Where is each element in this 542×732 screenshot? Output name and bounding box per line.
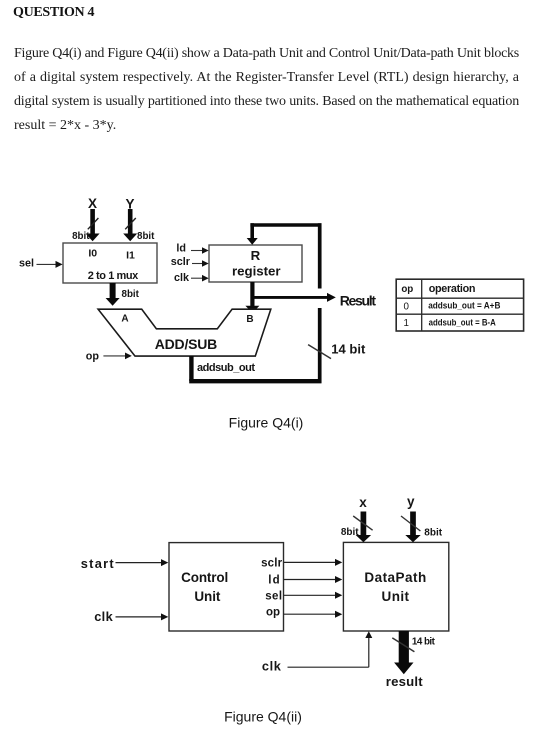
wire Result [252, 293, 335, 302]
label R [251, 248, 261, 263]
wire sclr to datapath [284, 559, 343, 566]
svg-text:8bit: 8bit [122, 289, 140, 300]
alu ADD/SUB [98, 309, 271, 356]
label 8bit on x bus [341, 527, 359, 538]
pin sel out [265, 591, 282, 603]
paragraph line 2 [14, 70, 519, 86]
label Unit (control) [194, 589, 221, 604]
node x label [359, 495, 367, 510]
svg-text:A: A [121, 313, 128, 324]
bus-width slash result 14 bit [392, 638, 414, 652]
wire sel to datapath [284, 592, 343, 599]
label sel [19, 257, 34, 269]
svg-text:register: register [232, 264, 281, 279]
svg-text:clk: clk [94, 609, 113, 624]
pin I0 [88, 248, 97, 260]
label clk (control input) [94, 609, 113, 624]
wire addsub_out down [189, 356, 193, 381]
svg-text:sclr: sclr [261, 557, 283, 569]
wire result output bus [394, 631, 413, 674]
node y label [407, 494, 415, 509]
label Control [181, 570, 228, 585]
paragraph line 4 [14, 118, 116, 134]
label 8bit on X bus [72, 231, 90, 242]
label 8bit on y bus [424, 528, 442, 539]
label 8bit on mux output [122, 289, 140, 300]
wire ld to datapath [284, 576, 343, 583]
svg-text:I1: I1 [126, 250, 135, 262]
svg-text:2 to 1 mux: 2 to 1 mux [88, 270, 139, 282]
wire clk to control [116, 613, 169, 620]
wire Y input bus [123, 209, 137, 241]
pin ld out [268, 575, 279, 587]
svg-text:8bit: 8bit [341, 527, 359, 538]
wire y input bus [401, 512, 421, 543]
wire x input bus [353, 512, 372, 543]
svg-text:I0: I0 [88, 248, 97, 260]
svg-text:X: X [88, 196, 97, 211]
svg-text:8bit: 8bit [72, 231, 90, 242]
wire ld [191, 247, 209, 254]
svg-text:Figure Q4(ii): Figure Q4(ii) [224, 708, 302, 724]
table header operation [429, 283, 476, 295]
table cell addsub_out = A+B [428, 301, 501, 311]
wire sclr [192, 260, 209, 267]
svg-text:1: 1 [403, 318, 408, 329]
table op/operation outer [396, 279, 523, 331]
svg-text:ld: ld [176, 242, 186, 254]
wire addsub_out bottom horizontal [189, 379, 321, 383]
svg-text:ld: ld [268, 575, 279, 587]
label op [86, 351, 100, 363]
wire feedback loop right vertical (lower) [318, 308, 322, 383]
pin B [246, 314, 253, 325]
caption Figure Q4(ii) [224, 708, 302, 724]
table cell 1 [403, 318, 408, 329]
table column divider [421, 279, 423, 331]
svg-text:Unit: Unit [382, 589, 410, 604]
wire mux output bus [106, 283, 120, 306]
paragraph line 1 [14, 46, 519, 62]
svg-text:op: op [86, 351, 100, 363]
svg-text:Control: Control [181, 570, 228, 585]
label register [232, 264, 281, 279]
svg-text:addsub_out: addsub_out [197, 362, 255, 374]
svg-text:ADD/SUB: ADD/SUB [155, 336, 218, 352]
mux 2-to-1 box [63, 243, 157, 283]
table cell 0 [403, 301, 409, 312]
svg-text:8bit: 8bit [424, 528, 442, 539]
svg-text:0: 0 [403, 301, 409, 312]
heading QUESTION 4 [13, 5, 94, 21]
table row divider 1 [396, 297, 523, 299]
svg-text:Unit: Unit [194, 589, 221, 604]
pin clk [174, 272, 190, 284]
wire feedback loop top horizontal [250, 223, 321, 227]
bus-width slash 14 bit [308, 345, 331, 359]
caption Figure Q4(i) [229, 414, 304, 430]
net label result [386, 674, 423, 689]
net label addsub_out [197, 362, 255, 374]
control unit box [169, 543, 284, 631]
label 8bit on Y bus [137, 231, 155, 242]
svg-text:14 bit: 14 bit [331, 342, 366, 357]
label clk (datapath input) [262, 659, 282, 674]
wire clk to datapath [288, 631, 373, 667]
wire register output to B [245, 282, 259, 313]
wire feedback loop left vertical into register [247, 223, 258, 245]
svg-text:addsub_out = A+B: addsub_out = A+B [428, 301, 501, 311]
label 2 to 1 mux [88, 270, 139, 282]
svg-text:14 bit: 14 bit [412, 637, 436, 648]
svg-text:Figure Q4(i): Figure Q4(i) [229, 414, 304, 430]
pin ld [176, 242, 186, 254]
svg-text:start: start [81, 556, 115, 571]
table header op [401, 284, 413, 295]
datapath unit box [343, 542, 448, 631]
svg-text:B: B [246, 314, 253, 325]
svg-text:op: op [401, 284, 413, 295]
table cell addsub_out = B-A [429, 317, 496, 327]
pin A [121, 313, 128, 324]
svg-text:sclr: sclr [171, 256, 191, 268]
svg-text:DataPath: DataPath [364, 570, 426, 585]
svg-text:op: op [266, 606, 280, 618]
label Unit (datapath) [382, 589, 410, 604]
wire clk [191, 275, 209, 282]
svg-text:sel: sel [19, 257, 34, 269]
svg-text:operation: operation [429, 283, 476, 295]
paragraph line 3 [14, 94, 519, 110]
svg-text:8bit: 8bit [137, 231, 155, 242]
svg-text:x: x [359, 495, 367, 510]
label 14 bit (result bus) [412, 637, 436, 648]
svg-text:Result: Result [340, 292, 377, 308]
svg-text:result: result [386, 674, 423, 689]
wire op to alu [103, 353, 131, 360]
label start [81, 556, 115, 571]
node X label [88, 196, 97, 211]
svg-text:addsub_out = B-A: addsub_out = B-A [429, 317, 496, 327]
svg-text:clk: clk [174, 272, 190, 284]
pin op out [266, 606, 280, 618]
table row divider 2 [396, 313, 523, 315]
svg-text:sel: sel [265, 591, 282, 603]
label 14 bit [331, 342, 366, 357]
wire X input bus [86, 209, 100, 241]
node Y label [125, 197, 134, 212]
wire op to datapath [284, 611, 343, 618]
pin sclr [171, 256, 191, 268]
svg-text:y: y [407, 494, 415, 509]
label DataPath [364, 570, 426, 585]
pin sclr out [261, 557, 283, 569]
register R box [209, 245, 302, 282]
pin I1 [126, 250, 135, 262]
svg-text:R: R [251, 248, 261, 263]
label ADD/SUB [155, 336, 218, 352]
wire start to control [116, 559, 169, 566]
svg-text:clk: clk [262, 659, 282, 674]
label Result [340, 292, 377, 308]
wire sel to mux [37, 261, 63, 268]
wire feedback loop right vertical (upper) [318, 223, 322, 288]
